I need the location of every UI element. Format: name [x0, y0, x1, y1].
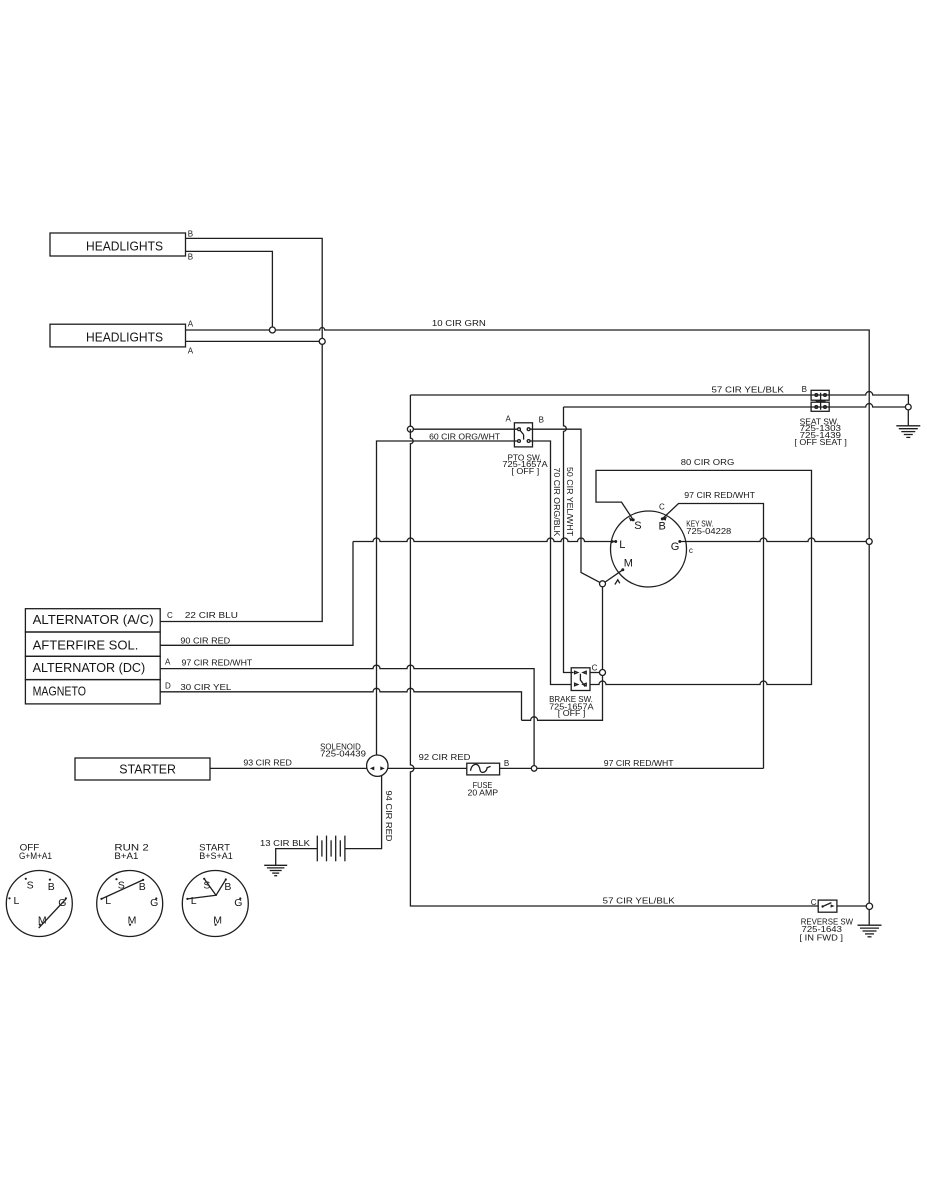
- connector box AFTERFIRE SOL.: [25, 632, 160, 656]
- connector box ALTERNATOR (DC): [25, 656, 160, 679]
- wire battery negative to ground: [276, 849, 318, 866]
- svg-text:HEADLIGHTS: HEADLIGHTS: [86, 240, 163, 254]
- svg-text:S: S: [27, 879, 34, 891]
- svg-text:STARTER: STARTER: [119, 763, 176, 777]
- headlight HL1 box: [50, 233, 186, 256]
- svg-text:20 AMP: 20 AMP: [468, 787, 499, 797]
- svg-text:c: c: [689, 546, 693, 555]
- key position diagram OFF (G+M connected): [6, 843, 72, 937]
- svg-text:G: G: [671, 541, 680, 553]
- svg-text:92 CIR RED: 92 CIR RED: [419, 752, 471, 762]
- svg-text:AFTERFIRE SOL.: AFTERFIRE SOL.: [33, 639, 139, 653]
- svg-text:80 CIR ORG: 80 CIR ORG: [681, 457, 735, 467]
- seat switch body: [811, 390, 829, 411]
- wire 60 CIR ORG/WHT lower branch to PTO bottom-left and solenoid vertical: [377, 441, 518, 755]
- ground (battery): [264, 865, 287, 875]
- svg-text:90 CIR RED: 90 CIR RED: [180, 635, 230, 645]
- svg-text:M: M: [624, 558, 633, 570]
- svg-text:725-04439: 725-04439: [320, 749, 366, 759]
- key position diagram START (L+S+B connected): [182, 843, 248, 937]
- fuse body: [467, 763, 500, 775]
- svg-text:C: C: [659, 502, 665, 511]
- wire 94 CIR RED solenoid to battery: [345, 776, 382, 849]
- battery cells: [317, 836, 345, 862]
- svg-text:B: B: [802, 385, 807, 394]
- ground (reverse switch): [858, 925, 882, 937]
- svg-text:L: L: [14, 895, 20, 907]
- svg-text:B: B: [224, 881, 231, 893]
- key position diagram RUN 2 (L+B connected): [97, 843, 163, 937]
- svg-text:M: M: [213, 914, 222, 926]
- svg-text:57 CIR YEL/BLK: 57 CIR YEL/BLK: [712, 384, 785, 394]
- svg-text:97 CIR RED/WHT: 97 CIR RED/WHT: [684, 490, 755, 500]
- wire 80 CIR ORG from key S around to brake right side: [590, 470, 812, 684]
- svg-text:ALTERNATOR (A/C): ALTERNATOR (A/C): [33, 613, 154, 627]
- svg-text:G: G: [150, 897, 158, 909]
- svg-text:57 CIR YEL/BLK: 57 CIR YEL/BLK: [603, 896, 675, 906]
- wire 90 CIR RED from AFTERFIRE SOL up and key-L run with hops: [160, 542, 353, 646]
- node M junction (50 net): [600, 581, 606, 587]
- wire 97 CIR RED/WHT fuse to key-B vertical: [500, 767, 764, 769]
- svg-text:B: B: [504, 759, 509, 768]
- svg-text:ALTERNATOR (DC): ALTERNATOR (DC): [33, 661, 146, 675]
- svg-text:A: A: [165, 657, 171, 666]
- arrow into key terminal S: [629, 517, 634, 522]
- solenoid body circle: [367, 755, 388, 776]
- wire 60 CIR ORG/WHT node to PTO A: [410, 428, 517, 430]
- svg-text:B: B: [188, 229, 193, 238]
- wire PTO bottom-right to 70 CIR ORG/BLK vertical to brake switch: [530, 441, 571, 685]
- svg-text:50 CIR YEL/WHT: 50 CIR YEL/WHT: [565, 467, 575, 536]
- svg-text:B+A1: B+A1: [114, 851, 138, 862]
- wire 93 CIR RED starter to solenoid: [210, 767, 367, 769]
- svg-text:[ OFF ]: [ OFF ]: [511, 466, 539, 476]
- svg-text:G+M+A1: G+M+A1: [19, 851, 52, 862]
- key switch body circle: [611, 511, 687, 587]
- brake switch terminals and lever: [575, 671, 587, 686]
- node A2 junction: [319, 338, 325, 344]
- starter box: [75, 758, 210, 780]
- wire PTO B to 50 CIR YEL/WHT vertical, diagonal to node M: [530, 429, 602, 584]
- solenoid terminals: [370, 766, 385, 770]
- wire node M down to brake common node: [602, 587, 604, 670]
- wire brake common stub: [590, 672, 600, 674]
- PTO switch terminals: [518, 428, 530, 443]
- svg-text:C: C: [167, 611, 173, 620]
- svg-text:B: B: [539, 415, 544, 424]
- svg-text:[ OFF SEAT ]: [ OFF SEAT ]: [794, 437, 847, 447]
- node reverse-ground junction: [866, 903, 872, 909]
- wire key M diagonal to node M: [605, 570, 623, 583]
- svg-text:C: C: [811, 898, 817, 907]
- svg-text:94 CIR RED: 94 CIR RED: [384, 791, 394, 842]
- svg-text:60 CIR ORG/WHT: 60 CIR ORG/WHT: [429, 432, 500, 442]
- svg-text:L: L: [619, 539, 625, 551]
- svg-text:B: B: [659, 520, 666, 532]
- wire 97 CIR RED/WHT from ALTERNATOR DC with hops, down to fuse node: [160, 665, 534, 768]
- node brake common junction: [600, 670, 606, 676]
- svg-text:97 CIR RED/WHT: 97 CIR RED/WHT: [604, 758, 674, 768]
- connector box MAGNETO: [25, 680, 160, 704]
- wire 30 CIR YEL from MAGNETO with hops, down and over to brake common: [160, 688, 521, 720]
- svg-text:725-04228: 725-04228: [686, 526, 731, 536]
- svg-text:G: G: [234, 897, 242, 909]
- svg-text:[ OFF ]: [ OFF ]: [558, 708, 586, 718]
- PTO switch body: [514, 423, 532, 447]
- wire HL1-B2 to node A1 vertical: [186, 251, 273, 330]
- svg-text:A: A: [188, 320, 194, 329]
- svg-text:B+S+A1: B+S+A1: [199, 851, 233, 862]
- svg-text:B: B: [48, 881, 55, 893]
- brake switch body: [571, 668, 590, 691]
- wire key G to right main vertical with hops: [680, 538, 867, 542]
- svg-text:B: B: [188, 252, 193, 261]
- svg-text:30 CIR YEL: 30 CIR YEL: [180, 682, 231, 692]
- wire seat bottom run from PTO-B crossing vertical: [564, 407, 574, 673]
- svg-text:70 CIR ORG/BLK: 70 CIR ORG/BLK: [552, 468, 562, 537]
- reverse switch lever: [821, 903, 834, 908]
- arrow on key M wire: [615, 580, 620, 585]
- node key-G / main vertical junction: [866, 539, 872, 545]
- ground (seat switch): [896, 426, 920, 438]
- svg-text:A: A: [506, 414, 512, 423]
- svg-text:A: A: [188, 346, 194, 355]
- svg-text:93 CIR RED: 93 CIR RED: [243, 757, 292, 767]
- svg-text:22 CIR BLU: 22 CIR BLU: [185, 610, 238, 620]
- svg-text:MAGNETO: MAGNETO: [33, 685, 87, 699]
- svg-text:B: B: [139, 881, 146, 893]
- headlight HL2 box: [50, 324, 186, 347]
- key terminal dots: [614, 517, 681, 571]
- wire 97 CIR RED/WHT from key B to fuse output vertical: [662, 504, 763, 769]
- arrow into key terminal B: [662, 516, 667, 521]
- node fuse output junction: [531, 766, 537, 772]
- node seat-ground junction: [905, 404, 911, 410]
- wire 57 CIR YEL/BLK seat top run from node down the page vertical: [410, 392, 908, 405]
- svg-text:10 CIR GRN: 10 CIR GRN: [432, 318, 486, 328]
- wire HL2-A2 to node A2: [186, 340, 323, 342]
- wire reverse to main vertical node: [837, 905, 867, 907]
- svg-text:[ IN FWD ]: [ IN FWD ]: [800, 933, 844, 943]
- arrow into key terminal L: [611, 540, 615, 544]
- node A1 junction: [269, 327, 275, 333]
- wire seat ground drop: [907, 410, 909, 426]
- svg-text:S: S: [634, 520, 641, 532]
- connector box ALTERNATOR (A/C): [25, 609, 160, 632]
- svg-text:L: L: [191, 895, 197, 907]
- node 60 CIR ORG/WHT junction: [407, 426, 413, 432]
- wire 92 CIR RED solenoid to fuse: [388, 767, 467, 769]
- svg-text:M: M: [128, 914, 137, 926]
- reverse switch body: [818, 900, 837, 912]
- fuse element squiggle: [471, 764, 491, 772]
- wire HL1-B1 to node A2 vertical and 22 CIR BLU run: [160, 238, 322, 621]
- wire 10 CIR GRN (HL2-A1 across top to right main vertical and down): [186, 328, 870, 926]
- wire node 60/seat vertical: [409, 395, 411, 429]
- svg-text:HEADLIGHTS: HEADLIGHTS: [86, 331, 163, 345]
- svg-text:97 CIR RED/WHT: 97 CIR RED/WHT: [182, 657, 253, 667]
- wire main left vertical from node to reverse switch (with jog and hop): [410, 429, 818, 906]
- svg-text:C: C: [592, 663, 598, 672]
- svg-text:13 CIR BLK: 13 CIR BLK: [260, 838, 310, 848]
- svg-text:D: D: [165, 682, 171, 691]
